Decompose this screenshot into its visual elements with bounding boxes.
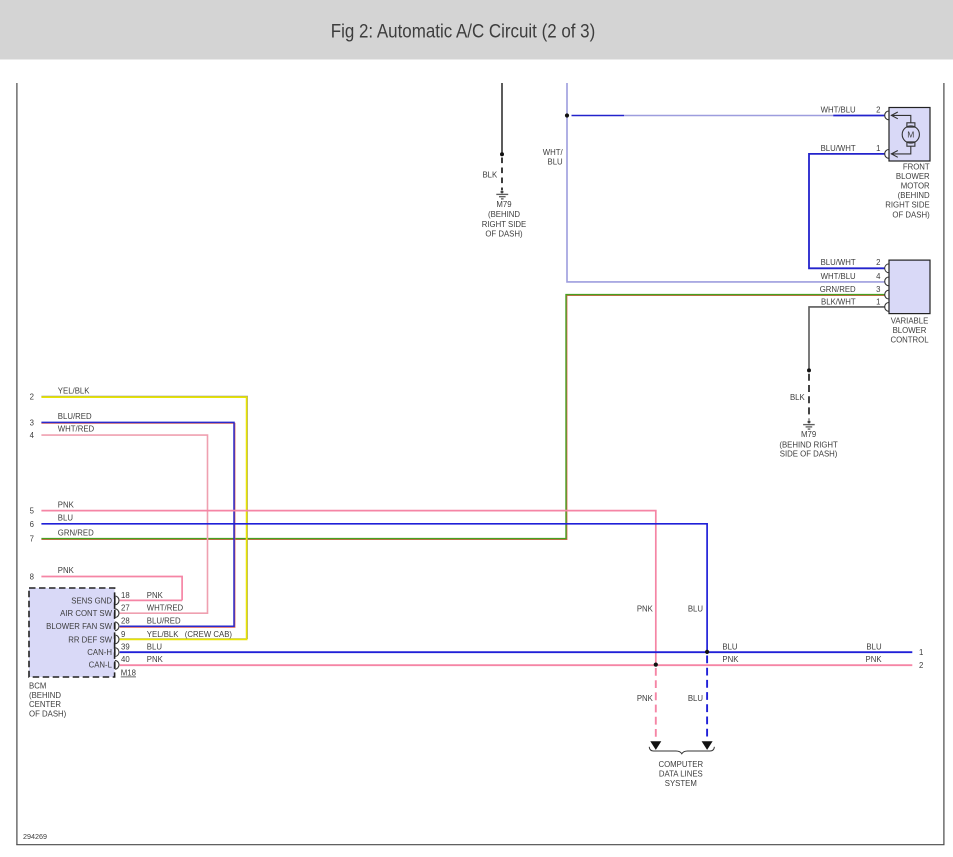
svg-text:CAN-H: CAN-H xyxy=(87,648,112,657)
svg-text:8: 8 xyxy=(30,573,34,582)
svg-text:27: 27 xyxy=(121,604,130,613)
front blower motor box xyxy=(889,108,930,162)
wire YEL/BLK yellow main xyxy=(41,397,246,639)
svg-text:2: 2 xyxy=(876,258,880,267)
svg-text:AIR CONT SW: AIR CONT SW xyxy=(60,609,112,618)
svg-text:BLU: BLU xyxy=(722,642,738,651)
svg-text:COMPUTER: COMPUTER xyxy=(658,760,703,769)
svg-text:OF DASH): OF DASH) xyxy=(485,230,523,239)
svg-text:WHT/BLU: WHT/BLU xyxy=(821,105,856,114)
wire PNK CAN-L (BCM pin 40 to right edge) xyxy=(120,664,913,666)
wire PNK (row 5, down to CAN-L) xyxy=(41,511,655,665)
brace computer data lines xyxy=(649,747,714,754)
svg-text:FRONT: FRONT xyxy=(903,162,930,171)
wire WHT/BLU vertical + to pin 4 of variable blower control xyxy=(567,83,885,282)
svg-text:BLU/WHT: BLU/WHT xyxy=(821,258,856,267)
svg-text:Fig 2: Automatic A/C Circuit (: Fig 2: Automatic A/C Circuit (2 of 3) xyxy=(331,20,596,42)
svg-text:4: 4 xyxy=(876,272,881,281)
svg-text:WHT/RED: WHT/RED xyxy=(147,604,184,613)
svg-text:BLK: BLK xyxy=(482,171,498,180)
svg-text:(BEHIND: (BEHIND xyxy=(898,191,930,200)
svg-text:3: 3 xyxy=(876,285,880,294)
junction dot on BLK wire xyxy=(500,152,504,156)
svg-text:BLU/RED: BLU/RED xyxy=(58,412,92,421)
svg-text:PNK: PNK xyxy=(637,605,654,614)
svg-text:(BEHIND: (BEHIND xyxy=(29,691,61,700)
pin 1 connector (variable blower control) xyxy=(885,303,889,312)
svg-text:5: 5 xyxy=(30,507,35,516)
pin 18 connector (BCM) xyxy=(115,596,119,605)
arrow PNK xyxy=(650,741,661,750)
svg-text:(BEHIND RIGHT: (BEHIND RIGHT xyxy=(779,441,838,450)
svg-text:MOTOR: MOTOR xyxy=(901,182,930,191)
pin 2 connector (front blower motor) xyxy=(885,111,898,120)
svg-text:CONTROL: CONTROL xyxy=(890,335,929,344)
motor M symbol xyxy=(891,115,919,153)
svg-text:4: 4 xyxy=(30,431,35,440)
svg-text:BLK: BLK xyxy=(790,393,806,402)
svg-text:WHT/: WHT/ xyxy=(543,148,564,157)
wire BLU CAN-H (BCM pin 39 to right edge) xyxy=(120,651,913,653)
svg-text:BCM: BCM xyxy=(29,681,46,690)
pin 2 connector (variable blower control) xyxy=(885,264,889,273)
svg-text:SENS GND: SENS GND xyxy=(71,596,112,605)
svg-text:RIGHT SIDE: RIGHT SIDE xyxy=(482,220,526,229)
variable blower control box xyxy=(889,260,930,314)
wire WHT/RED (row 4 to BCM pin 27) xyxy=(41,435,207,613)
svg-text:BLU: BLU xyxy=(688,605,704,614)
arrow BLU xyxy=(702,741,713,750)
svg-text:WHT/RED: WHT/RED xyxy=(58,425,95,434)
svg-text:GRN/RED: GRN/RED xyxy=(58,528,94,537)
svg-text:BLOWER FAN SW: BLOWER FAN SW xyxy=(46,622,112,631)
label M79 (BEHIND RIGHT SIDE OF DASH) left xyxy=(482,200,526,238)
svg-text:BLU/WHT: BLU/WHT xyxy=(821,144,856,153)
label VARIABLE BLOWER CONTROL xyxy=(890,317,929,345)
svg-text:3: 3 xyxy=(30,418,34,427)
svg-text:M18: M18 xyxy=(121,669,136,678)
svg-text:YEL/BLK: YEL/BLK xyxy=(147,630,179,639)
svg-text:PNK: PNK xyxy=(147,655,164,664)
wire BLK dashed (right) xyxy=(808,374,810,420)
pin 39 connector (BCM) xyxy=(115,648,119,657)
svg-text:PNK: PNK xyxy=(147,591,164,600)
svg-text:PNK: PNK xyxy=(58,566,75,575)
junction dot CAN-L xyxy=(654,663,658,667)
svg-text:M79: M79 xyxy=(801,430,816,439)
svg-text:BLU/RED: BLU/RED xyxy=(147,617,181,626)
svg-text:BLU: BLU xyxy=(548,158,564,167)
svg-text:PNK: PNK xyxy=(722,655,739,664)
svg-text:M: M xyxy=(907,129,914,139)
svg-text:1: 1 xyxy=(876,297,880,306)
ground M79 (right) xyxy=(803,420,815,429)
svg-text:M79: M79 xyxy=(496,200,511,209)
svg-text:7: 7 xyxy=(30,535,34,544)
svg-text:9: 9 xyxy=(121,630,125,639)
svg-text:SYSTEM: SYSTEM xyxy=(665,779,697,788)
wire BLU/RED blue main xyxy=(41,422,234,626)
wire WHT/BLU horizontal to front blower motor pin 2 xyxy=(572,115,885,117)
wire BLK/WHT from variable blower control pin 1 xyxy=(809,307,885,370)
svg-text:(CREW CAB): (CREW CAB) xyxy=(185,630,233,639)
svg-text:CAN-L: CAN-L xyxy=(89,661,113,670)
wire BLK dashed segment xyxy=(501,158,503,191)
label COMPUTER DATA LINES SYSTEM xyxy=(658,760,703,788)
pin 9 connector (BCM) xyxy=(115,635,119,644)
wire PNK dashed drop to data-lines system xyxy=(655,668,657,739)
svg-text:RR DEF SW: RR DEF SW xyxy=(68,635,112,644)
svg-text:CENTER: CENTER xyxy=(29,700,61,709)
svg-text:GRN/RED: GRN/RED xyxy=(820,285,856,294)
svg-text:PNK: PNK xyxy=(637,694,654,703)
svg-text:BLU: BLU xyxy=(688,694,704,703)
svg-text:6: 6 xyxy=(30,520,34,529)
pin 28 connector (BCM) xyxy=(115,622,119,631)
title bar xyxy=(0,0,953,60)
label WHT/ BLU (vertical wire) xyxy=(543,148,564,167)
pin 4 connector (variable blower control) xyxy=(885,277,889,286)
svg-text:WHT/BLU: WHT/BLU xyxy=(821,272,856,281)
svg-text:SIDE OF DASH): SIDE OF DASH) xyxy=(780,450,838,459)
pin 1 connector (front blower motor) xyxy=(885,150,898,159)
svg-text:(BEHIND: (BEHIND xyxy=(488,210,520,219)
pin 3 connector (variable blower control) xyxy=(885,290,889,299)
ground M79 (left) xyxy=(496,190,508,199)
svg-text:BLU: BLU xyxy=(147,642,163,651)
svg-text:BLU: BLU xyxy=(866,642,882,651)
label M79 (BEHIND RIGHT SIDE OF DASH) right xyxy=(779,430,838,459)
junction dot CAN-H xyxy=(705,650,709,654)
svg-text:BLOWER: BLOWER xyxy=(896,172,930,181)
svg-text:40: 40 xyxy=(121,655,130,664)
wire BLK (top, to ground M79 left) xyxy=(501,83,503,154)
label FRONT BLOWER MOTOR (BEHIND RIGHT SIDE OF DASH) xyxy=(885,162,930,219)
svg-text:VARIABLE: VARIABLE xyxy=(891,317,929,326)
svg-text:OF DASH): OF DASH) xyxy=(892,210,930,219)
svg-text:18: 18 xyxy=(121,591,130,600)
wire PNK BCM pin 18 stub xyxy=(120,599,182,601)
BCM box (dashed) xyxy=(29,588,115,677)
svg-text:BLU: BLU xyxy=(58,514,74,523)
svg-text:OF DASH): OF DASH) xyxy=(29,710,67,719)
svg-text:PNK: PNK xyxy=(866,655,883,664)
BCM pin border ticks xyxy=(114,597,116,668)
svg-text:BLK/WHT: BLK/WHT xyxy=(821,297,856,306)
wire YEL/BLK black stripe (row 2 to BCM pin 9) xyxy=(41,396,247,638)
junction dot on BLK wire right xyxy=(807,368,811,372)
svg-text:2: 2 xyxy=(30,393,34,402)
wire BLU/RED red stripe (row 3 to BCM pin 28) xyxy=(41,423,235,627)
svg-text:294269: 294269 xyxy=(23,832,47,841)
wire BLU (row 6, down to CAN-H) xyxy=(41,524,707,652)
wire PNK (row 8 to BCM pin 18) xyxy=(41,577,182,601)
svg-text:2: 2 xyxy=(876,105,880,114)
wire BLU/WHT from motor pin 1 to variable blower control pin 2 xyxy=(809,154,885,268)
pin 40 connector (BCM) xyxy=(115,660,119,669)
svg-text:RIGHT SIDE: RIGHT SIDE xyxy=(885,201,929,210)
wire BLU dashed drop to data-lines system xyxy=(706,656,708,740)
svg-text:YEL/BLK: YEL/BLK xyxy=(58,386,90,395)
svg-text:PNK: PNK xyxy=(58,500,75,509)
svg-text:2: 2 xyxy=(919,661,923,670)
svg-text:DATA LINES: DATA LINES xyxy=(659,770,703,779)
BCM internal pin labels xyxy=(46,596,113,669)
svg-text:39: 39 xyxy=(121,642,130,651)
label BCM (BEHIND CENTER OF DASH) xyxy=(29,681,67,718)
svg-text:1: 1 xyxy=(876,144,880,153)
pin 27 connector (BCM) xyxy=(115,609,119,618)
wire GRN/RED green main xyxy=(41,295,884,539)
junction dot node WHT/BLU xyxy=(565,113,569,117)
svg-text:BLOWER: BLOWER xyxy=(893,326,927,335)
svg-text:28: 28 xyxy=(121,617,130,626)
svg-text:1: 1 xyxy=(919,648,923,657)
wire GRN/RED red stripe xyxy=(41,296,884,540)
